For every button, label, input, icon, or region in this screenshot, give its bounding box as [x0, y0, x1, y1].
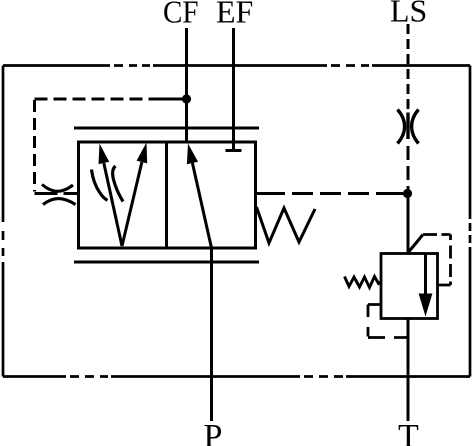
valve envelope box: [79, 142, 256, 248]
svg-text:P: P: [204, 418, 223, 446]
orifice at left pilot: [35, 185, 81, 205]
bottom rail line: [74, 261, 259, 264]
svg-text:EF: EF: [216, 0, 253, 30]
right edge: [469, 66, 472, 377]
top edge: [3, 64, 470, 67]
svg-text:T: T: [398, 418, 419, 446]
relief drain dashed loop lower-left: [368, 305, 407, 338]
relief valve box: [381, 254, 438, 319]
relief pilot top dashed loop: [423, 235, 451, 286]
relief pilot diagonal from valve top: [409, 235, 423, 252]
spring at valve right: [257, 207, 316, 243]
EF blocked port T-bar: [226, 149, 242, 152]
top rail line: [74, 127, 259, 130]
svg-text:CF: CF: [163, 0, 199, 30]
wire: CF port line: [185, 28, 188, 141]
wire: LS line from junction to relief valve: [407, 194, 410, 253]
left edge: [2, 66, 5, 377]
wire: LS dashed segment below orifice: [407, 146, 410, 193]
wire: pilot line from valve to LS junction (dashed): [257, 192, 404, 195]
relief valve spring: [345, 277, 382, 288]
wire: LS pilot line upper (dashed): [407, 24, 410, 109]
wire: T port line: [407, 319, 410, 422]
orifice on LS line: [398, 110, 419, 144]
wire: EF port line: [232, 28, 235, 150]
enclosure border (dash-dot chain): [3, 66, 470, 377]
wire: left pilot vertical (dashed): [33, 100, 36, 192]
node: CF pilot junction dot: [182, 94, 191, 103]
valve position divider: [165, 142, 168, 248]
arrow: right chamber (P to CF): [187, 144, 212, 249]
node: LS junction dot: [403, 189, 412, 198]
arrow: left chamber left (CF path): [99, 144, 123, 247]
wire: P port line: [210, 248, 213, 421]
arrow: left chamber right: [122, 143, 147, 247]
wire: left pilot horizontal (dashed) from junction dot to corner: [35, 98, 161, 101]
variable throttle arcs over left arrow: [92, 166, 124, 202]
bottom edge: [3, 375, 470, 378]
relief valve internal arrow: [419, 254, 433, 317]
